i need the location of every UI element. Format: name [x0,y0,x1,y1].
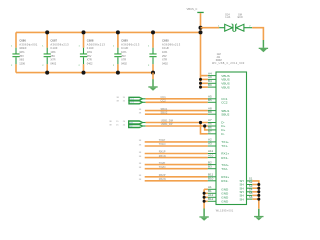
sheet refs TX1 pair [139,140,142,146]
sheet refs USB1 pair [109,121,126,127]
svg-text:TX1-: TX1- [221,144,228,148]
wire TX2P [145,164,208,166]
junction dots VBUS pins [199,78,202,89]
svg-text:TX2P: TX2P [159,161,166,165]
svg-text:RX1P: RX1P [159,150,166,154]
svg-text:B9: B9 [208,83,212,87]
port USB1_DP [129,125,143,129]
VBUS pin wires [201,76,208,88]
svg-text:D-: D- [221,132,224,136]
svg-text:A3060dx001: A3060dx001 [19,42,38,46]
svg-text:C690: C690 [162,39,169,43]
wire USB1_DM [142,122,145,124]
svg-text:C689: C689 [121,39,128,43]
svg-text:CC2: CC2 [130,102,134,104]
svg-text:B3: B3 [208,164,212,168]
junction dots top rail [45,30,155,34]
svg-text:S6: S6 [249,195,253,199]
junction dots bottom rail [45,71,155,75]
wire bottom rail GND [16,72,153,74]
svg-text:B10: B10 [208,177,214,181]
svg-text:B7: B7 [208,130,212,134]
svg-text:X7R: X7R [50,58,55,62]
capacitor C687 [42,32,69,72]
jog wire D- A7 to B7 [201,123,208,134]
diode D24 (bidirectional TVS) [218,13,252,31]
port CC2 [129,101,142,104]
svg-text:USB1_DM: USB1_DM [161,119,173,123]
svg-text:WC_USB_C_2X12_600: WC_USB_C_2X12_600 [212,62,245,65]
svg-text:A3: A3 [208,142,212,146]
wire RX2N [145,180,208,182]
svg-text:1206: 1206 [19,61,25,65]
svg-text:CC1: CC1 [161,95,167,99]
svg-text:10%: 10% [87,50,93,54]
svg-text:0.1UF: 0.1UF [50,46,57,50]
svg-text:B12: B12 [208,197,214,201]
svg-text:RX2N: RX2N [159,177,166,181]
sheet refs CC pair [116,97,125,103]
port USB1_DM [129,121,143,124]
svg-text:TX1P: TX1P [159,138,166,142]
svg-text:RX1N: RX1N [159,154,166,158]
svg-text:SH: SH [239,197,243,201]
svg-text:25V: 25V [19,54,24,58]
connector J21 body [212,53,247,213]
junction dots GND pins [203,192,206,203]
svg-text:10%: 10% [19,50,25,54]
wire shield bus [252,181,258,209]
svg-text:SBU1: SBU1 [161,107,168,111]
GND pin vertical wire [203,189,205,208]
svg-text:RX2P: RX2P [159,173,166,177]
svg-text:10%: 10% [162,50,168,54]
wire TX2N [145,168,208,170]
ground bottom right [254,209,263,221]
pin numbers left [208,71,214,201]
left pin stubs J21 [208,76,216,202]
svg-text:25V: 25V [87,54,92,58]
svg-text:X7R: X7R [162,58,167,62]
wire CC1 [142,98,145,100]
svg-text:0402: 0402 [121,61,127,65]
capacitor C690 [148,32,181,72]
svg-text:C687: C687 [50,39,57,43]
port CC1 [129,97,142,100]
svg-text:CC2: CC2 [161,99,167,103]
svg-text:USB1_DP: USB1_DP [161,122,173,126]
wire SBU1 [145,110,208,112]
pin names right SH [239,179,243,201]
wire top rail VBUS_C [16,31,201,33]
svg-text:A36096x213: A36096x213 [162,42,181,46]
svg-text:25V: 25V [162,54,167,58]
capacitor C688 [79,32,106,72]
wire CC2 [142,101,145,103]
junction dots shield bus [257,183,260,201]
svg-text:SBU2: SBU2 [221,112,229,116]
right pin stubs J21 [247,181,253,199]
svg-text:A36096x213: A36096x213 [121,42,140,46]
svg-text:X7R: X7R [121,58,126,62]
svg-text:X6S: X6S [19,58,24,62]
svg-text:GND: GND [221,200,229,204]
svg-text:RX2-: RX2- [221,179,228,183]
junction dots D pins [199,121,202,124]
node VBUS_C junctions [199,26,203,35]
svg-text:0402: 0402 [87,61,93,65]
svg-text:0.1UF: 0.1UF [162,46,169,50]
svg-text:A36096x213: A36096x213 [50,42,69,46]
capacitor C689 [113,32,140,72]
right pin numbers [249,177,253,199]
jog wire D+ A6 to B6 [205,126,208,130]
svg-text:C688: C688 [87,39,94,43]
svg-text:0402: 0402 [50,61,56,65]
wire TX1P [145,141,208,143]
sheet refs TX2 pair [139,163,142,169]
svg-text:B5: B5 [208,98,212,102]
power port VBUS_C [187,7,204,87]
svg-text:0.1UF: 0.1UF [121,46,128,50]
svg-text:A36096x213: A36096x213 [87,42,106,46]
ground under cap bank [148,73,157,91]
sheet refs RX2 pair [139,175,142,181]
svg-text:RX1-: RX1- [221,156,228,160]
svg-text:100nF: 100nF [19,46,27,50]
svg-text:ECO: ECO [238,16,243,19]
svg-text:10%: 10% [50,50,56,54]
wire to diode D24 [201,27,220,29]
svg-text:B8: B8 [208,110,212,114]
svg-text:1.2A: 1.2A [225,16,230,19]
wire SBU2 [145,113,208,115]
pin names left [221,74,229,204]
svg-text:SBU2: SBU2 [161,111,168,115]
wire RX1P [145,153,208,155]
sheet refs SBU pair [139,109,142,115]
wire diode to ground [252,28,263,40]
ground top right [259,40,268,52]
wire TX1N [145,145,208,147]
ground bottom left [199,209,208,221]
sheet refs RX1 pair [139,152,142,158]
svg-text:25V: 25V [121,54,126,58]
svg-text:TX2N: TX2N [159,165,166,169]
svg-text:X7R: X7R [87,58,92,62]
wire USB1_DP [142,125,145,127]
svg-text:0402: 0402 [162,61,168,65]
svg-text:CC2: CC2 [221,101,227,105]
wire RX2P [145,176,208,178]
svg-text:WL1595+001: WL1595+001 [216,210,234,213]
svg-text:VBUS_C: VBUS_C [187,7,198,11]
capacitor C686 [11,32,38,72]
svg-text:TX1N: TX1N [159,142,166,146]
svg-text:25V: 25V [50,54,55,58]
svg-text:A10: A10 [208,153,214,157]
svg-text:0.1UF: 0.1UF [87,46,94,50]
svg-text:VBUS: VBUS [221,85,229,89]
svg-text:C686: C686 [19,39,26,43]
svg-text:TX2-: TX2- [221,167,228,171]
svg-text:10%: 10% [121,50,127,54]
wire RX1N [145,157,208,159]
